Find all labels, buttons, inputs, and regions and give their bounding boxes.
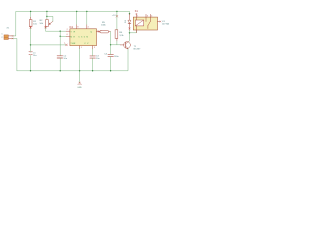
ground symbol main (77, 71, 82, 89)
svg-text:1: 1 (1, 34, 3, 36)
resistor R5 output (98, 22, 111, 33)
node junction dot C1/rail (30, 70, 31, 71)
node junction dot C2/rail (60, 70, 61, 71)
svg-text:CV: CV (84, 43, 89, 45)
connector X1 (1, 27, 13, 39)
trimmer R2 (40, 11, 53, 28)
resistor R4 (115, 11, 124, 41)
svg-text:4: 4 (151, 15, 152, 17)
svg-text:12V 8A: 12V 8A (162, 22, 170, 25)
capacitor C4 (104, 45, 119, 71)
wire R4 bottom to base wire (116, 41, 118, 45)
svg-text:1: 1 (137, 15, 138, 17)
wire R1 bottom to trigger node (30, 28, 32, 45)
wire X1 pin2 to ground rail (13, 39, 17, 71)
svg-text:3: 3 (147, 15, 148, 17)
svg-text:2: 2 (67, 29, 68, 31)
capacitor C3 (90, 49, 100, 71)
capacitor C1 (29, 45, 37, 71)
wire threshold vertical (59, 31, 61, 55)
wire emitter down to ground rail (17, 49, 128, 71)
node junction dot collector (129, 32, 130, 33)
svg-text:NE 555N: NE 555N (70, 37, 88, 39)
node junction dot R2/rail (46, 11, 47, 12)
wire +V rail (16, 11, 130, 35)
svg-text:4: 4 (88, 27, 89, 29)
wire X1 pin1 to rail (13, 35, 16, 37)
svg-text:8: 8 (77, 27, 78, 29)
op-amp/timer IC1 NE555 (64, 11, 100, 49)
svg-text:100k: 100k (101, 24, 107, 26)
node junction dot C3/rail (92, 70, 93, 71)
svg-text:1: 1 (81, 47, 82, 49)
net label +12V (112, 15, 118, 17)
svg-text:+12: +12 (112, 15, 116, 17)
node junction dot pin4/rail (86, 11, 87, 12)
node junction dot C4/rail (110, 70, 111, 71)
svg-text:R4: R4 (119, 32, 123, 34)
svg-text:10k: 10k (33, 24, 37, 26)
node junction dot relay/diode top (129, 13, 130, 14)
svg-text:2: 2 (1, 37, 3, 39)
svg-text:6: 6 (67, 34, 68, 36)
svg-text:10u: 10u (33, 55, 37, 57)
svg-text:5: 5 (94, 47, 95, 49)
node junction dot pin6 (60, 36, 61, 37)
svg-text:IC1: IC1 (69, 26, 74, 29)
wire IC pin1 to ground rail (79, 49, 81, 71)
diode D1 (125, 14, 131, 30)
wire collector to relay coil (130, 30, 137, 33)
svg-text:7: 7 (64, 43, 65, 45)
node junction dot R4/rail (116, 11, 117, 12)
resistor R1 (29, 11, 37, 28)
wire collector up (128, 33, 131, 42)
svg-text:K1: K1 (135, 9, 139, 13)
node junction dot R1/rail (30, 11, 31, 12)
wire R5 to base node (110, 32, 112, 45)
svg-text:BC337: BC337 (134, 49, 141, 51)
svg-text:10n: 10n (96, 58, 100, 60)
svg-text:50k: 50k (40, 23, 44, 25)
svg-text:D1: D1 (125, 19, 127, 23)
capacitor C2 (57, 55, 68, 71)
node junction dot base (110, 44, 111, 45)
wire pin6 branch (60, 35, 66, 37)
svg-text:TR: TR (70, 31, 75, 33)
node junction dot pin1/rail (79, 70, 80, 71)
svg-text:R1: R1 (33, 21, 37, 23)
svg-text:THR: THR (70, 43, 75, 45)
transistor T1 (120, 41, 141, 50)
svg-text:GND: GND (77, 87, 82, 89)
svg-text:X1: X1 (7, 27, 10, 29)
svg-text:10n: 10n (63, 58, 67, 60)
svg-text:Q: Q (90, 31, 92, 33)
node junction dot pin8/rail (76, 11, 77, 12)
wire trigger node to pin7 (31, 44, 67, 46)
svg-text:100n: 100n (114, 56, 120, 58)
wire base node to transistor (111, 44, 121, 46)
node junction dot pin2/pin6 branch (60, 31, 61, 32)
node junction dot trigger (30, 44, 31, 45)
pin 7 end cross (66, 44, 68, 46)
wire R2 bottom to pin2 (46, 28, 67, 32)
wire diode bottom (129, 30, 131, 33)
relay K1 (133, 9, 169, 33)
wire R2 top to wiper (47, 16, 53, 21)
svg-text:3,3k: 3,3k (119, 35, 124, 37)
svg-text:C4: C4 (104, 54, 108, 56)
